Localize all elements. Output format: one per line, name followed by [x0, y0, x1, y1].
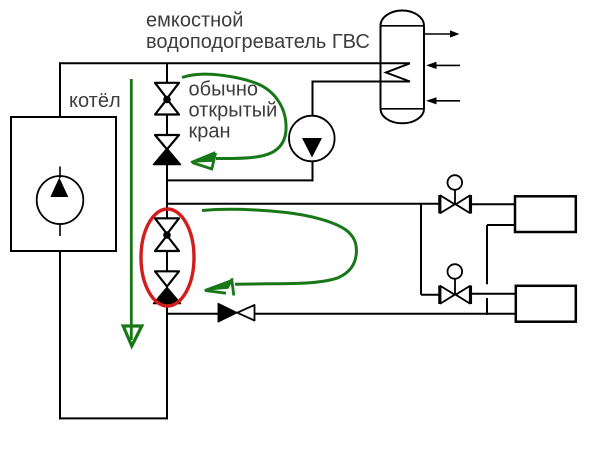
annotation: green flow arrow down through boiler loop — [130, 79, 133, 340]
arrow: cold water inlet middle (points left) — [435, 64, 460, 66]
annotation: green arrowhead pointing left at valve — [191, 152, 215, 162]
wire: drop to lower control valve — [420, 204, 422, 295]
radiator R1 — [515, 196, 576, 232]
control valve CV2 stem — [454, 279, 456, 294]
svg-text:водоподогреватель ГВС: водоподогреватель ГВС — [146, 31, 370, 53]
wire: return header continues to R2 — [255, 313, 517, 315]
wire: pump inlet stub inside boiler — [59, 167, 61, 179]
control valve CV1 actuator head — [448, 175, 463, 190]
tank top dome — [381, 10, 425, 25]
wire: column segment V3-V4 — [166, 251, 168, 273]
wire: CV2 to radiator R2 — [471, 293, 517, 295]
boiler box — [11, 117, 116, 251]
coil zigzag inside tank — [386, 63, 410, 81]
wire: left riser to boiler top — [59, 62, 61, 117]
annotation: green arrowhead pointing left at red-circled valves — [205, 280, 233, 290]
wire: top supply line to tank coil — [59, 62, 410, 64]
wire: common return header — [166, 313, 219, 315]
wire: riser from discharge line to pump P2 — [312, 161, 314, 181]
valve V3 stem dot — [163, 231, 171, 239]
wire: R1 return to drop — [487, 224, 516, 226]
pump P1 (boiler pump) circle — [37, 176, 84, 224]
wire: bottom return line — [59, 417, 168, 419]
annotation: red ellipse highlighting V3+V4 — [141, 209, 194, 306]
valve V1 (normally open valve, upper) — [155, 83, 179, 99]
wire: column segment V1-V2 — [166, 115, 168, 137]
valve V1 stem dot — [163, 96, 171, 104]
arrow: cold water inlet bottom (points left) — [435, 100, 460, 102]
tank: DHW storage water heater shell — [380, 26, 382, 109]
pump P1 impeller triangle — [50, 178, 68, 198]
wire: CV1 to radiator R1 — [471, 203, 516, 205]
wire: DHW pump discharge line — [166, 179, 313, 181]
wire: pump outlet stub inside boiler — [59, 224, 61, 236]
wire: column segment below V4 to bottom — [166, 304, 168, 420]
wire: left downcomer below boiler — [59, 251, 61, 419]
annotation: green curve over note text to DHW pump — [182, 74, 286, 158]
valve V3 (in red circle, upper) — [155, 218, 179, 234]
tank bottom dome — [381, 109, 425, 124]
svg-text:открытый: открытый — [189, 100, 278, 122]
control valve CV2 actuator head — [448, 264, 463, 279]
valve V4 (in red circle, lower half filled) — [155, 271, 179, 286]
svg-text:котёл: котёл — [69, 90, 121, 112]
pump P2 (DHW circulation pump) — [289, 116, 335, 162]
svg-text:кран: кран — [189, 121, 231, 143]
svg-text:емкостной: емкостной — [146, 10, 243, 32]
control valve CV2 body — [438, 286, 441, 305]
wire: tank coil return line — [312, 81, 411, 83]
wire: pump P2 suction riser to tank coil — [312, 81, 314, 116]
wire: drop continues after crossing gap — [486, 298, 488, 315]
wire: column segment below V2 with junctions — [166, 165, 168, 220]
annotation: green loop curve through radiator circuit — [202, 209, 356, 284]
pump P2 impeller triangle — [302, 138, 322, 158]
valve V2 (upper, lower half filled) — [155, 135, 179, 149]
radiator R2 — [516, 286, 576, 322]
wire: valve column top segment — [166, 63, 168, 84]
arrow: DHW outlet (points right) — [424, 33, 456, 35]
wire: radiator supply header — [166, 203, 440, 205]
valve HV (check valve on return, left half filled) — [218, 304, 236, 322]
control valve CV1 stem — [454, 190, 456, 204]
control valve CV1 body — [438, 195, 441, 214]
